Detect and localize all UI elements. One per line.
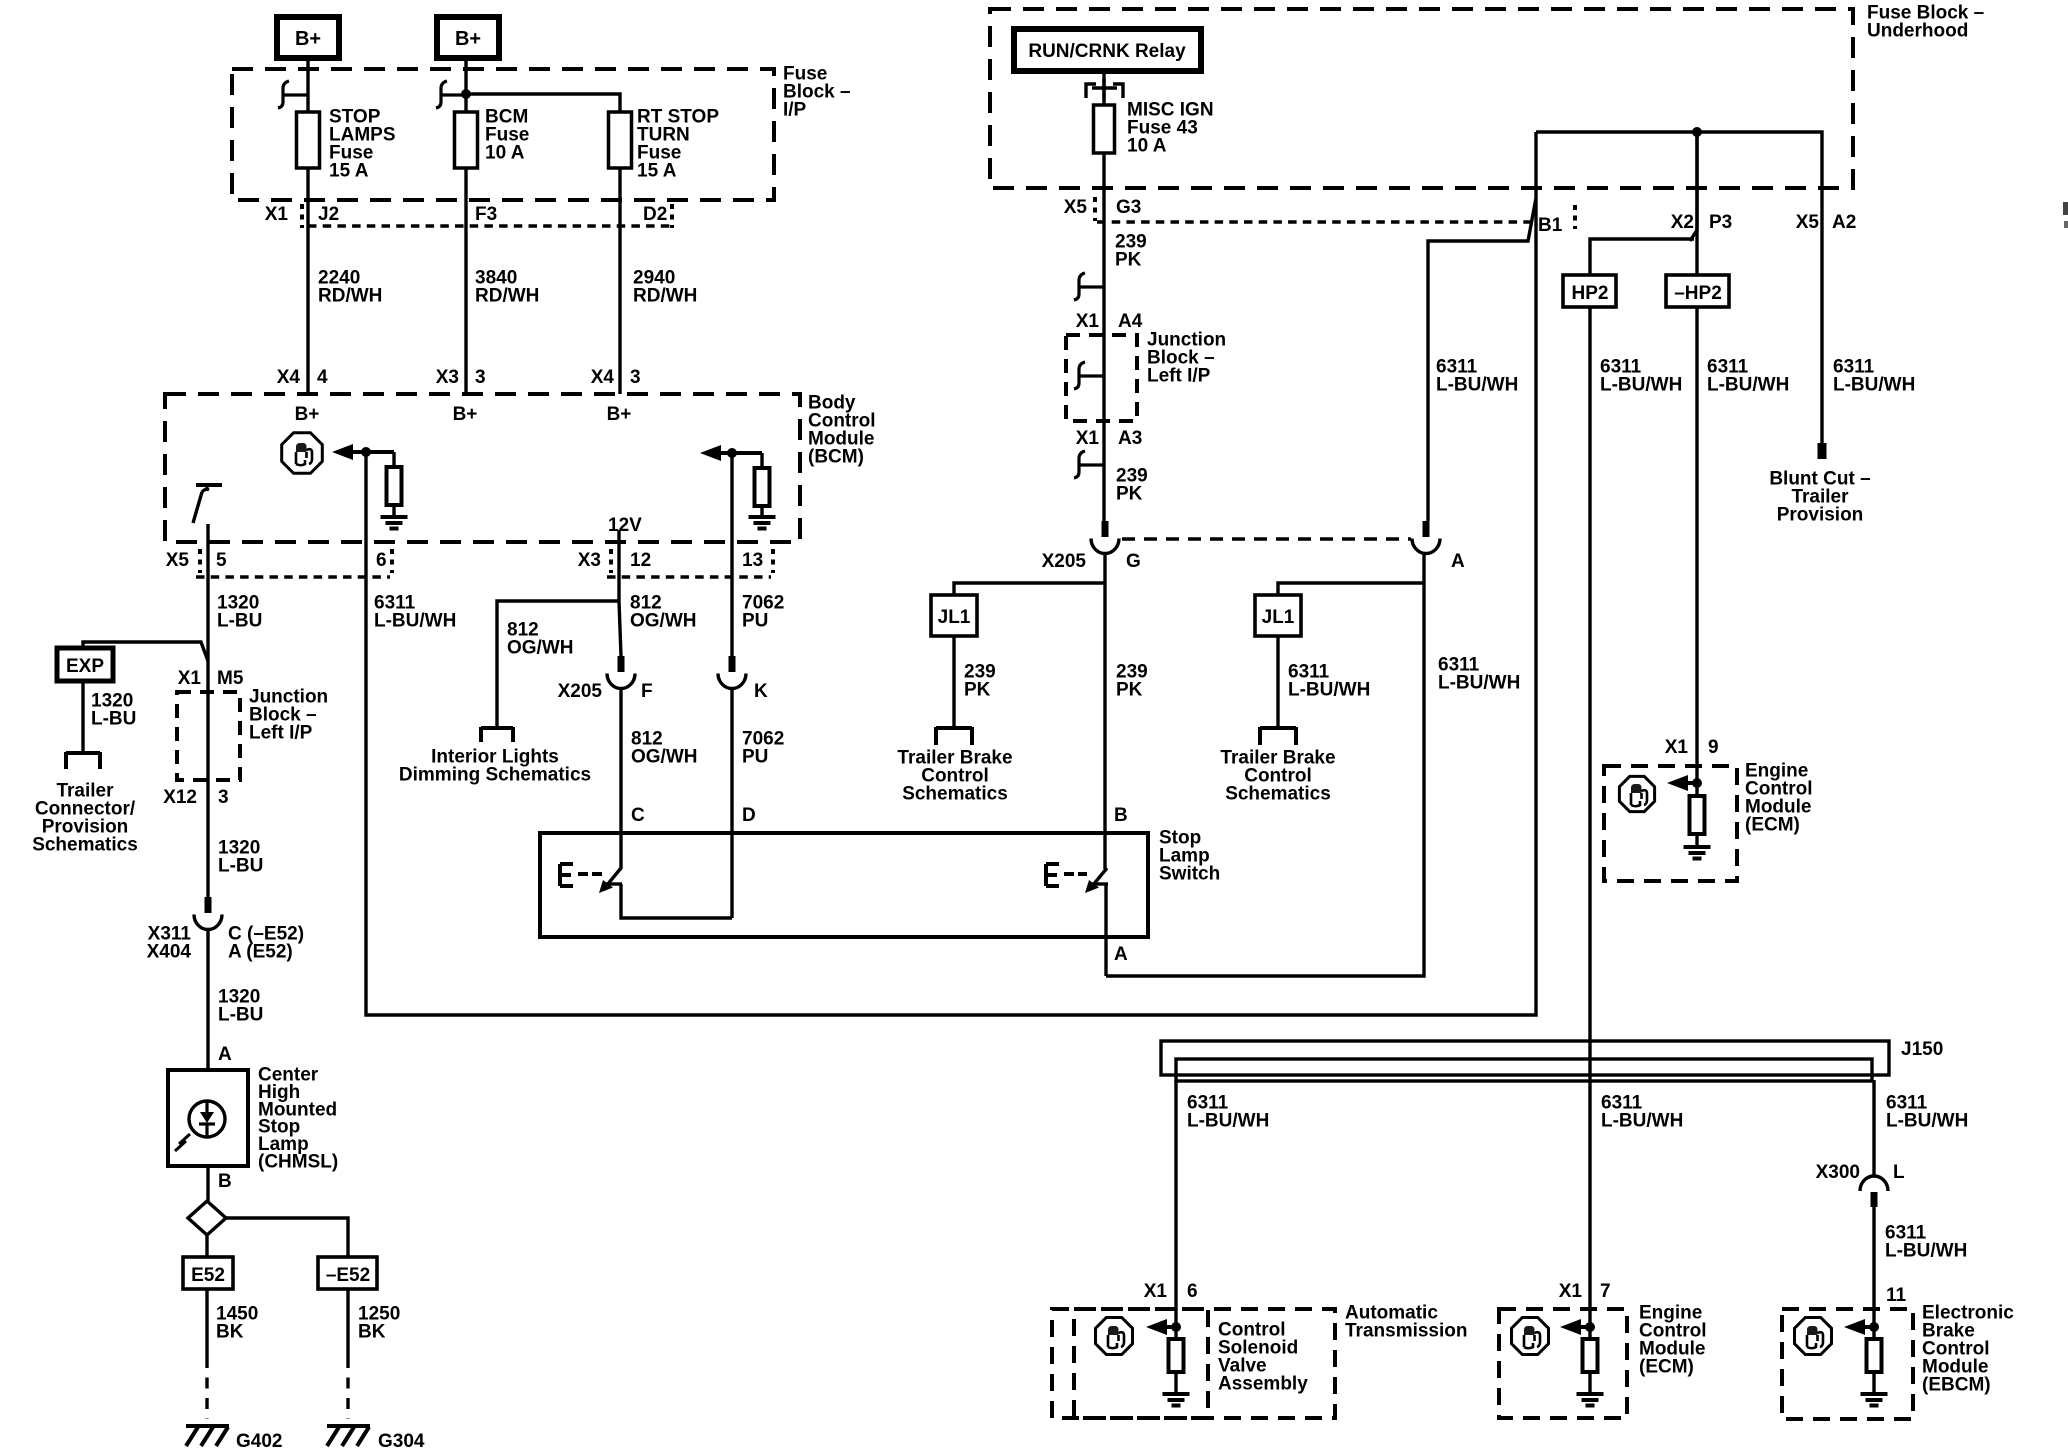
svg-text:X300: X300 xyxy=(1816,1162,1860,1183)
svg-text:(ECM): (ECM) xyxy=(1745,815,1800,836)
fuse MISC IGN 43 xyxy=(1094,100,1214,157)
svg-text:EXP: EXP xyxy=(66,656,104,677)
junction xyxy=(461,89,471,99)
wire label 6311 A2 xyxy=(1833,357,1915,396)
wire label 1320 L-BU xyxy=(217,593,262,632)
body control module dashed box xyxy=(165,394,800,542)
svg-text:E52: E52 xyxy=(191,1265,225,1286)
wire label 3840 RD/WH xyxy=(475,268,539,307)
svg-text:X205: X205 xyxy=(558,681,603,702)
CHMSL lamp symbol xyxy=(175,1101,225,1151)
connector X300 L xyxy=(1860,1176,1888,1207)
svg-text:X3: X3 xyxy=(436,367,459,388)
dashed connector line G to A xyxy=(1122,537,1411,541)
svg-text:X3: X3 xyxy=(578,550,601,571)
pin label X4 4 xyxy=(277,367,328,388)
fuse RT STOP TURN 15A xyxy=(609,107,720,182)
label Center High Mounted Stop Lamp (CHMSL) xyxy=(258,1065,338,1173)
BCM pull resistor left xyxy=(387,467,402,505)
svg-text:HP2: HP2 xyxy=(1572,283,1609,304)
svg-text:BK: BK xyxy=(358,1322,386,1343)
ECM top arrow xyxy=(1667,775,1697,791)
svg-text:–HP2: –HP2 xyxy=(1674,283,1722,304)
wire label 1250 BK xyxy=(358,1304,400,1343)
svg-text:X12: X12 xyxy=(163,787,197,808)
off-page fork trailer brake right xyxy=(1260,727,1296,745)
svg-text:B+: B+ xyxy=(455,28,481,50)
label Fuse Block - Underhood xyxy=(1867,3,1984,42)
svg-text:3: 3 xyxy=(630,367,641,388)
svg-text:12V: 12V xyxy=(608,515,642,536)
J150 splice outer box xyxy=(1161,1041,1889,1075)
pin label X1 J2 xyxy=(265,204,339,228)
wire label 2240 RD/WH xyxy=(318,268,382,307)
svg-text:X4: X4 xyxy=(277,367,301,388)
label A conn xyxy=(1451,551,1465,572)
label Trailer Brake Control Schematics left xyxy=(897,748,1012,805)
junction block left IP dashed box 2 xyxy=(1066,335,1137,421)
svg-text:JL1: JL1 xyxy=(1262,607,1295,628)
fuse block I/P dashed box xyxy=(232,69,774,200)
label Stop Lamp Switch xyxy=(1159,828,1220,885)
svg-text:A (E52): A (E52) xyxy=(228,942,293,963)
electronic brake control module xyxy=(1782,1285,2014,1419)
svg-text:3: 3 xyxy=(475,367,486,388)
wire label 7062 PU pin13 xyxy=(742,593,784,632)
svg-text:OG/WH: OG/WH xyxy=(507,638,574,659)
wire CHMSL to splice xyxy=(206,1166,209,1201)
wire distribution top xyxy=(1536,132,1822,443)
svg-text:X1: X1 xyxy=(1076,428,1100,449)
svg-text:L-BU: L-BU xyxy=(217,611,262,632)
svg-text:X5: X5 xyxy=(166,550,190,571)
connector E52 box xyxy=(183,1257,233,1289)
switch blade left xyxy=(599,868,622,893)
wire BCM pin13 xyxy=(730,453,733,656)
connector JL1 left box xyxy=(931,595,977,636)
ground G304 xyxy=(327,1426,425,1452)
svg-text:L-BU/WH: L-BU/WH xyxy=(1885,1241,1967,1262)
wire label 2940 RD/WH xyxy=(633,268,697,307)
svg-text:L-BU/WH: L-BU/WH xyxy=(1601,1111,1683,1132)
splice diamond xyxy=(188,1201,226,1235)
svg-text:F: F xyxy=(641,681,653,702)
wire JL1 right down xyxy=(1276,636,1279,728)
svg-text:4: 4 xyxy=(317,367,328,388)
wire A exit switch xyxy=(1104,937,1107,976)
svg-text:A4: A4 xyxy=(1118,311,1143,332)
pin label B+ (F3) xyxy=(453,404,478,425)
svg-text:PK: PK xyxy=(1115,250,1142,271)
wire relay to fuse xyxy=(1102,71,1105,105)
svg-text:G3: G3 xyxy=(1116,197,1141,218)
wire A down xyxy=(1106,552,1424,976)
pin label F3 xyxy=(475,204,497,225)
wire branch to -E52 xyxy=(226,1218,348,1257)
svg-text:Schematics: Schematics xyxy=(902,784,1008,805)
svg-text:L-BU/WH: L-BU/WH xyxy=(1436,375,1518,396)
connector X205 F xyxy=(607,656,635,689)
pin label X1 A3 xyxy=(1076,428,1143,449)
svg-text:C: C xyxy=(631,805,645,826)
pin label X1 M5 xyxy=(178,668,244,689)
svg-text:RUN/CRNK Relay: RUN/CRNK Relay xyxy=(1028,41,1186,62)
wire label 6311 -HP2 xyxy=(1707,357,1789,396)
wire branch to EXP xyxy=(83,642,208,661)
off-page fork trailer connector xyxy=(66,752,100,769)
svg-text:(CHMSL): (CHMSL) xyxy=(258,1152,338,1173)
svg-text:10 A: 10 A xyxy=(485,143,525,164)
svg-text:RD/WH: RD/WH xyxy=(475,286,539,307)
junction P3 xyxy=(1692,127,1702,137)
svg-text:X1: X1 xyxy=(1665,737,1689,758)
svg-text:J2: J2 xyxy=(318,204,339,225)
wire label 1320 L-BU c xyxy=(218,987,263,1026)
relay terminal symbol xyxy=(1086,79,1123,101)
svg-text:X1: X1 xyxy=(265,204,289,225)
svg-text:L-BU: L-BU xyxy=(91,709,136,730)
wire label 812 OG/WH branch xyxy=(507,620,574,659)
BCM pull resistor right xyxy=(755,468,770,506)
connector X205 G xyxy=(1091,521,1119,554)
fuse block underhood dashed box xyxy=(990,9,1853,188)
svg-text:G304: G304 xyxy=(378,1431,425,1452)
wire label 239 PK main xyxy=(1116,662,1148,701)
wire diamond to E52 xyxy=(205,1235,208,1257)
wire label 812 OG/WH pin12 xyxy=(630,593,697,632)
wire P3 to -HP2 xyxy=(1695,132,1698,275)
BCM internal ground right xyxy=(749,517,776,529)
svg-text:F3: F3 xyxy=(475,204,497,225)
pin label B+ (J2) xyxy=(295,404,320,425)
svg-text:(ECM): (ECM) xyxy=(1639,1357,1694,1378)
wire -E52 down xyxy=(346,1289,349,1357)
svg-text:Dimming Schematics: Dimming Schematics xyxy=(399,765,591,786)
wire label 6311 jl1 xyxy=(1288,662,1370,701)
svg-text:A: A xyxy=(1451,551,1465,572)
pin label 6 xyxy=(376,549,392,573)
wire branch to RT STOP TURN fuse xyxy=(466,94,620,112)
pin label A chmsl xyxy=(218,1044,232,1065)
svg-text:X205: X205 xyxy=(1042,551,1087,572)
svg-text:L-BU/WH: L-BU/WH xyxy=(1187,1111,1269,1132)
wire HP2 down xyxy=(1588,307,1591,1339)
svg-text:PK: PK xyxy=(964,680,991,701)
connector X311/X404 xyxy=(194,897,222,930)
pin label X1 9 xyxy=(1665,737,1719,758)
svg-text:P3: P3 xyxy=(1709,212,1732,233)
svg-text:6: 6 xyxy=(376,550,387,571)
svg-text:L-BU/WH: L-BU/WH xyxy=(1833,375,1915,396)
svg-text:(BCM): (BCM) xyxy=(808,447,864,468)
svg-text:Schematics: Schematics xyxy=(32,835,138,856)
power symbol B+ (stop lamps fuse feed) xyxy=(277,17,339,58)
wire -HP2 to ECM xyxy=(1695,307,1698,796)
svg-text:PU: PU xyxy=(742,747,768,768)
switch contact E left xyxy=(560,864,602,886)
junction pin6 xyxy=(361,447,371,457)
pin label X12 3 xyxy=(163,787,228,808)
wire label 6311 j150 right xyxy=(1886,1093,1968,1132)
pin label X3 12 xyxy=(578,549,651,573)
svg-text:3: 3 xyxy=(218,787,229,808)
BCM right arrow into logic xyxy=(700,445,762,461)
svg-text:A: A xyxy=(1114,944,1128,965)
svg-text:A2: A2 xyxy=(1832,212,1856,233)
label Fuse Block - I/P xyxy=(783,64,851,121)
wire label 6311 x300 xyxy=(1885,1223,1967,1262)
pin label D2 xyxy=(643,204,672,228)
BCM pin row dotted X5 xyxy=(196,575,390,579)
BCM left arrow into logic xyxy=(332,444,394,460)
svg-text:–E52: –E52 xyxy=(326,1265,370,1286)
svg-text:PK: PK xyxy=(1116,484,1143,505)
svg-text:L-BU/WH: L-BU/WH xyxy=(1600,375,1682,396)
wire label 6311 L-BU/WH pin6 xyxy=(374,593,456,632)
svg-text:X404: X404 xyxy=(147,942,192,963)
svg-text:Transmission: Transmission xyxy=(1345,1321,1468,1342)
clip below A3 xyxy=(1074,451,1104,478)
pin label X1 A4 xyxy=(1076,311,1143,332)
ECM top keypad icon xyxy=(1619,776,1654,811)
pin label B1 xyxy=(1538,205,1575,236)
wire resistor to ground xyxy=(392,505,395,517)
svg-text:X5: X5 xyxy=(1796,212,1820,233)
svg-text:B: B xyxy=(218,1171,232,1192)
pin label X4 3 xyxy=(591,367,641,388)
svg-text:B+: B+ xyxy=(295,404,320,425)
wire E52 down xyxy=(205,1289,208,1357)
pin label A switch xyxy=(1114,944,1128,965)
svg-text:L-BU: L-BU xyxy=(218,856,263,877)
svg-text:10 A: 10 A xyxy=(1127,136,1167,157)
svg-text:G402: G402 xyxy=(236,1431,282,1452)
svg-text:11: 11 xyxy=(1886,1285,1907,1306)
wire branch to JL1 right xyxy=(1278,583,1424,595)
label C (-E52) A (E52) xyxy=(228,924,304,963)
svg-text:7: 7 xyxy=(1600,1281,1611,1302)
wire X300 down xyxy=(1872,1207,1875,1339)
wire K to switch D xyxy=(730,687,733,918)
svg-text:X1: X1 xyxy=(178,668,202,689)
connector -E52 box xyxy=(318,1257,377,1289)
svg-text:(EBCM): (EBCM) xyxy=(1922,1375,1991,1396)
wire fuse J2 down xyxy=(306,168,309,394)
label Junction Block - Left I/P 2 xyxy=(1147,330,1226,387)
wire branch to HP2 xyxy=(1590,239,1694,275)
label Junction Block - Left I/P xyxy=(249,687,328,744)
connector JL1 right box xyxy=(1255,595,1301,636)
svg-text:6: 6 xyxy=(1187,1281,1198,1302)
svg-text:OG/WH: OG/WH xyxy=(630,611,697,632)
ECM top dashed box xyxy=(1604,766,1737,881)
svg-text:X5: X5 xyxy=(1064,197,1088,218)
svg-text:D2: D2 xyxy=(643,204,667,225)
label Trailer Brake Control Schematics right xyxy=(1220,748,1335,805)
pin label 13 xyxy=(742,549,773,573)
wire G down to switch B xyxy=(1103,552,1106,869)
label Interior Lights Dimming Schematics xyxy=(399,747,591,786)
svg-text:B+: B+ xyxy=(453,404,478,425)
wire switch right lower xyxy=(1104,884,1107,937)
wire label 6311 j150 mid xyxy=(1601,1093,1683,1132)
wire P3 down xyxy=(1690,132,1697,241)
wire B+ to stop lamps fuse xyxy=(306,58,309,112)
clip on stop lamps fuse wire xyxy=(278,81,308,108)
svg-text:A3: A3 xyxy=(1118,428,1142,449)
svg-text:RD/WH: RD/WH xyxy=(318,286,382,307)
wire A branch from B1 xyxy=(1428,198,1536,521)
stop lamp switch box xyxy=(540,833,1148,937)
wire through junction block 2 xyxy=(1102,335,1105,521)
svg-text:BK: BK xyxy=(216,1322,244,1343)
ground G402 xyxy=(186,1426,282,1452)
svg-text:B+: B+ xyxy=(295,28,321,50)
wire misc ign down xyxy=(1102,153,1105,335)
pin label X2 P3 xyxy=(1671,212,1733,233)
connector -HP2 box xyxy=(1666,275,1729,307)
connector row G3 dotted xyxy=(1097,220,1536,224)
label X205 F xyxy=(558,681,653,702)
clip on BCM fuse wire xyxy=(436,81,466,108)
connector HP2 box xyxy=(1563,275,1616,307)
svg-text:12: 12 xyxy=(630,550,651,571)
wire switch left to D xyxy=(621,884,732,918)
wire J150 right leg xyxy=(1872,1080,1875,1177)
svg-text:L-BU/WH: L-BU/WH xyxy=(1288,680,1370,701)
control solenoid valve assembly module xyxy=(1074,1281,1468,1418)
label Engine Control Module ECM top xyxy=(1745,761,1813,836)
pin label B switch xyxy=(1114,805,1128,826)
svg-text:J150: J150 xyxy=(1901,1039,1943,1060)
svg-text:X4: X4 xyxy=(591,367,615,388)
svg-text:X1: X1 xyxy=(1076,311,1100,332)
svg-text:A: A xyxy=(218,1044,232,1065)
pin label X3 3 xyxy=(436,367,486,388)
label Blunt Cut - Trailer Provision xyxy=(1769,469,1870,526)
label J150 xyxy=(1901,1039,1943,1060)
svg-text:PK: PK xyxy=(1116,680,1143,701)
svg-text:JL1: JL1 xyxy=(938,607,971,628)
svg-text:Left I/P: Left I/P xyxy=(249,723,313,744)
BCM switch symbol xyxy=(193,485,222,523)
wire label 6311 j150 left xyxy=(1187,1093,1269,1132)
pin label X5 G3 xyxy=(1064,197,1142,221)
switch blade right xyxy=(1085,868,1108,893)
pin label X5 A2 xyxy=(1796,212,1857,233)
pin label X5 5 xyxy=(166,549,227,573)
wire resistor to ground right xyxy=(760,506,763,517)
BCM keypad icon left xyxy=(282,433,323,474)
BCM internal ground left xyxy=(381,517,408,529)
wire EXP down xyxy=(81,681,84,753)
wire -E52 dashed to ground xyxy=(346,1357,349,1419)
svg-text:15 A: 15 A xyxy=(637,161,677,182)
wire label 6311 HP2 xyxy=(1600,357,1682,396)
wire label 7062 PU c xyxy=(742,729,784,768)
junction pin13 xyxy=(727,448,737,458)
svg-text:X1: X1 xyxy=(1559,1281,1583,1302)
pin label D xyxy=(742,805,756,826)
svg-text:15 A: 15 A xyxy=(329,161,369,182)
wire label 239 PK a3 xyxy=(1116,466,1148,505)
wire JL1 left down xyxy=(952,636,955,728)
pin label B+ (D2) xyxy=(607,404,632,425)
svg-text:B: B xyxy=(1114,805,1128,826)
wire BCM pin5 down xyxy=(206,524,209,661)
svg-text:K: K xyxy=(754,681,768,702)
svg-text:L-BU/WH: L-BU/WH xyxy=(374,611,456,632)
wire ecm top resistor gnd xyxy=(1695,834,1698,847)
svg-text:B1: B1 xyxy=(1538,215,1563,236)
wire B+ to BCM fuse xyxy=(464,58,467,112)
svg-text:Provision: Provision xyxy=(1777,505,1864,526)
wire F to switch C xyxy=(619,687,622,869)
J150 splice inner box xyxy=(1176,1059,1872,1081)
wire to CHMSL xyxy=(206,928,209,1070)
wire label 6311 Aconn xyxy=(1436,357,1518,396)
pin label B chmsl xyxy=(218,1171,232,1192)
wire label 6311 b1 xyxy=(1438,655,1520,694)
engine control module bottom xyxy=(1499,1281,1707,1418)
connector X205 A xyxy=(1412,521,1440,554)
svg-text:9: 9 xyxy=(1708,737,1719,758)
page edge artifact marks xyxy=(2063,202,2068,228)
svg-text:L-BU/WH: L-BU/WH xyxy=(1886,1111,1968,1132)
wire J150 left leg xyxy=(1174,1080,1177,1339)
svg-text:L-BU/WH: L-BU/WH xyxy=(1438,673,1520,694)
wire fuse D2 down xyxy=(618,168,621,394)
svg-text:Underhood: Underhood xyxy=(1867,21,1968,42)
connector X205 K xyxy=(718,656,746,689)
wire branch to JL1 left xyxy=(954,583,1105,595)
wire label 1320 L-BU b xyxy=(218,838,263,877)
label X300 L xyxy=(1816,1162,1905,1183)
ECM top ground xyxy=(1684,847,1711,859)
svg-text:Switch: Switch xyxy=(1159,864,1220,885)
svg-text:B+: B+ xyxy=(607,404,632,425)
svg-text:I/P: I/P xyxy=(783,100,807,121)
wire label 1450 BK xyxy=(216,1304,258,1343)
blunt cut stub xyxy=(1818,443,1827,459)
off-page fork trailer brake left xyxy=(936,727,972,745)
relay RUN/CRNK box xyxy=(1014,29,1201,71)
svg-text:D: D xyxy=(742,805,756,826)
clip A4 xyxy=(1074,273,1104,300)
wire BCM pin6 long run xyxy=(366,132,1536,1015)
label K xyxy=(754,681,768,702)
svg-text:L: L xyxy=(1893,1162,1905,1183)
wire label 239 PK jl1 xyxy=(964,662,996,701)
label X311 X404 xyxy=(147,924,192,963)
svg-text:OG/WH: OG/WH xyxy=(631,747,698,768)
svg-text:L-BU: L-BU xyxy=(218,1005,263,1026)
svg-text:Assembly: Assembly xyxy=(1218,1374,1308,1395)
CHMSL box xyxy=(168,1070,248,1166)
svg-text:X2: X2 xyxy=(1671,212,1694,233)
label Trailer Connector Provision Schematics xyxy=(32,781,138,856)
fuse BCM 10A xyxy=(455,107,530,169)
label Body Control Module (BCM) xyxy=(808,393,876,468)
svg-text:5: 5 xyxy=(216,550,227,571)
label X205 G xyxy=(1042,551,1141,572)
wire through junction block xyxy=(206,692,209,897)
svg-text:M5: M5 xyxy=(217,668,244,689)
svg-text:Left I/P: Left I/P xyxy=(1147,366,1211,387)
wire label 239 PK g3 xyxy=(1115,232,1147,271)
wire arrow junction to resistor xyxy=(392,452,395,467)
svg-text:L-BU/WH: L-BU/WH xyxy=(1707,375,1789,396)
